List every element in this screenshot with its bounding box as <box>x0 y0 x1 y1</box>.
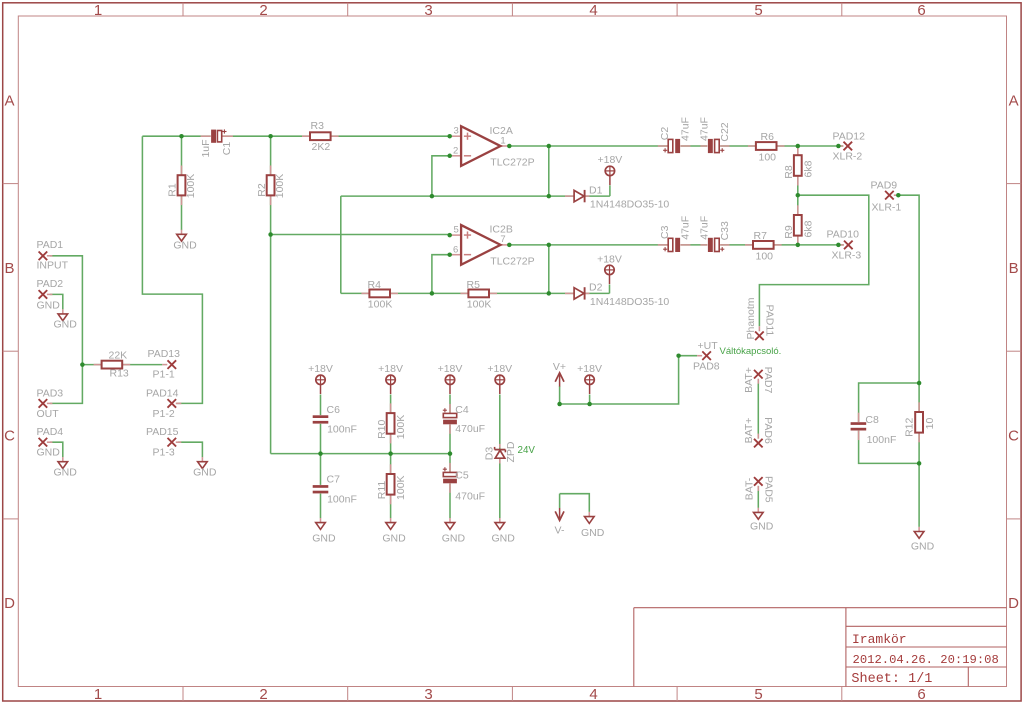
svg-text:4: 4 <box>589 686 597 703</box>
svg-text:C: C <box>4 428 15 445</box>
svg-text:Sheet: 1/1: Sheet: 1/1 <box>851 672 932 687</box>
svg-text:XLR-2: XLR-2 <box>833 150 863 162</box>
svg-text:IC2B: IC2B <box>490 224 513 236</box>
svg-text:GND: GND <box>37 299 61 311</box>
svg-text:1N4148DO35-10: 1N4148DO35-10 <box>590 296 670 308</box>
svg-text:R2: R2 <box>256 183 268 197</box>
svg-text:22K: 22K <box>109 350 128 362</box>
svg-text:7: 7 <box>500 234 505 245</box>
svg-text:P1-3: P1-3 <box>153 447 175 459</box>
svg-text:3: 3 <box>424 2 432 19</box>
svg-text:100K: 100K <box>467 298 492 310</box>
svg-text:4: 4 <box>589 2 597 19</box>
svg-text:470uF: 470uF <box>455 490 485 502</box>
svg-text:D3: D3 <box>483 447 495 461</box>
svg-text:B: B <box>1009 260 1019 277</box>
svg-text:1: 1 <box>94 2 102 19</box>
svg-text:3: 3 <box>424 686 432 703</box>
svg-text:100nF: 100nF <box>327 493 357 505</box>
svg-text:1: 1 <box>94 686 102 703</box>
svg-text:C1: C1 <box>221 142 233 156</box>
svg-text:GND: GND <box>911 541 935 553</box>
svg-text:R5: R5 <box>467 279 481 291</box>
svg-text:GND: GND <box>54 467 78 479</box>
svg-text:+18V: +18V <box>378 363 403 375</box>
svg-text:PAD14: PAD14 <box>146 387 179 399</box>
svg-text:GND: GND <box>37 447 61 459</box>
svg-text:C6: C6 <box>327 404 341 416</box>
svg-text:C: C <box>1008 428 1019 445</box>
svg-text:V+: V+ <box>553 361 566 373</box>
svg-text:47uF: 47uF <box>679 117 691 141</box>
svg-text:C2: C2 <box>659 127 671 141</box>
svg-text:PAD3: PAD3 <box>37 387 64 399</box>
svg-text:A: A <box>4 93 14 110</box>
svg-text:6: 6 <box>917 2 925 19</box>
svg-text:PAD15: PAD15 <box>146 426 179 438</box>
svg-text:PAD12: PAD12 <box>833 131 866 143</box>
svg-text:470uF: 470uF <box>455 423 485 435</box>
svg-text:5: 5 <box>454 225 459 236</box>
svg-text:R12: R12 <box>903 418 915 437</box>
svg-text:GND: GND <box>193 467 217 479</box>
svg-text:100nF: 100nF <box>327 424 357 436</box>
svg-text:100: 100 <box>756 250 774 262</box>
svg-text:2: 2 <box>453 146 458 157</box>
svg-text:10: 10 <box>924 418 936 430</box>
svg-text:D1: D1 <box>589 184 603 196</box>
svg-text:R4: R4 <box>368 279 382 291</box>
svg-text:+18V: +18V <box>438 363 463 375</box>
svg-text:24V: 24V <box>518 445 536 456</box>
svg-text:PAD4: PAD4 <box>37 426 64 438</box>
svg-text:INPUT: INPUT <box>37 260 69 272</box>
svg-text:C8: C8 <box>865 414 879 426</box>
svg-text:PAD1: PAD1 <box>37 239 64 251</box>
svg-text:47uF: 47uF <box>679 216 691 240</box>
svg-text:Iramkör: Iramkör <box>852 632 907 647</box>
svg-text:100K: 100K <box>274 174 286 199</box>
svg-text:A: A <box>1009 93 1019 110</box>
svg-text:V-: V- <box>555 525 565 537</box>
svg-text:D: D <box>4 595 15 612</box>
svg-text:GND: GND <box>492 532 516 544</box>
svg-text:BAT-: BAT- <box>744 477 756 500</box>
svg-text:6k8: 6k8 <box>802 160 814 177</box>
svg-text:2K2: 2K2 <box>312 141 331 153</box>
svg-text:TLC272P: TLC272P <box>490 255 534 267</box>
svg-text:GND: GND <box>382 532 406 544</box>
svg-text:C4: C4 <box>455 404 469 416</box>
svg-text:1uF: 1uF <box>200 139 212 157</box>
svg-text:1N4148DO35-10: 1N4148DO35-10 <box>590 199 670 211</box>
svg-text:5: 5 <box>754 686 762 703</box>
svg-text:47uF: 47uF <box>698 117 710 141</box>
svg-text:5: 5 <box>754 2 762 19</box>
svg-text:1: 1 <box>500 135 505 146</box>
svg-text:2012.04.26. 20:19:08: 2012.04.26. 20:19:08 <box>853 653 999 667</box>
svg-text:+18V: +18V <box>577 363 602 375</box>
svg-text:3: 3 <box>454 126 459 137</box>
svg-text:+18V: +18V <box>308 363 333 375</box>
svg-text:+UT: +UT <box>698 340 719 352</box>
svg-text:47uF: 47uF <box>698 216 710 240</box>
svg-text:ZPD: ZPD <box>505 441 517 462</box>
svg-text:R6: R6 <box>761 131 775 143</box>
svg-text:100nF: 100nF <box>867 434 897 446</box>
svg-text:R10: R10 <box>376 420 388 439</box>
svg-text:R1: R1 <box>167 183 179 197</box>
svg-text:Phanotm: Phanotm <box>745 297 757 339</box>
svg-text:P1-2: P1-2 <box>153 408 175 420</box>
svg-text:100K: 100K <box>395 475 407 500</box>
svg-text:2: 2 <box>259 686 267 703</box>
svg-text:R9: R9 <box>783 225 795 239</box>
svg-text:6: 6 <box>453 245 458 256</box>
svg-text:GND: GND <box>442 532 466 544</box>
svg-text:PAD5: PAD5 <box>763 476 775 503</box>
svg-text:C22: C22 <box>719 122 731 141</box>
svg-text:PAD6: PAD6 <box>762 417 774 444</box>
svg-text:P1-1: P1-1 <box>153 368 175 380</box>
svg-text:B: B <box>4 260 14 277</box>
svg-text:XLR-3: XLR-3 <box>832 249 862 261</box>
svg-text:IC2A: IC2A <box>490 125 513 137</box>
svg-text:100K: 100K <box>395 415 407 440</box>
svg-text:PAD10: PAD10 <box>827 228 860 240</box>
svg-text:D2: D2 <box>589 282 603 294</box>
svg-text:GND: GND <box>750 520 774 532</box>
svg-text:GND: GND <box>54 318 78 330</box>
svg-text:PAD9: PAD9 <box>871 179 898 191</box>
svg-text:OUT: OUT <box>37 408 60 420</box>
svg-text:Váltókapcsoló.: Váltókapcsoló. <box>720 346 782 357</box>
svg-text:PAD7: PAD7 <box>762 367 774 394</box>
svg-text:+18V: +18V <box>597 253 622 265</box>
svg-text:6k8: 6k8 <box>802 220 814 237</box>
svg-text:+18V: +18V <box>487 363 512 375</box>
svg-text:100K: 100K <box>368 298 393 310</box>
svg-text:2: 2 <box>259 2 267 19</box>
svg-text:+18V: +18V <box>597 154 622 166</box>
svg-text:TLC272P: TLC272P <box>490 157 534 169</box>
svg-text:C3: C3 <box>659 225 671 239</box>
svg-text:100K: 100K <box>185 174 197 199</box>
svg-text:GND: GND <box>173 239 197 251</box>
svg-text:R8: R8 <box>783 165 795 179</box>
svg-text:PAD13: PAD13 <box>148 348 181 360</box>
svg-text:C5: C5 <box>455 469 469 481</box>
svg-text:XLR-1: XLR-1 <box>872 201 902 213</box>
svg-text:PAD8: PAD8 <box>693 360 720 372</box>
svg-text:R11: R11 <box>376 481 388 500</box>
svg-text:C7: C7 <box>327 474 341 486</box>
svg-text:PAD2: PAD2 <box>37 278 64 290</box>
svg-text:GND: GND <box>581 527 605 539</box>
svg-text:6: 6 <box>917 686 925 703</box>
svg-text:BAT+: BAT+ <box>743 418 755 444</box>
svg-text:GND: GND <box>312 532 336 544</box>
svg-text:100: 100 <box>759 151 777 163</box>
svg-text:BAT+: BAT+ <box>743 367 755 393</box>
svg-text:R7: R7 <box>754 230 768 242</box>
svg-text:R13: R13 <box>110 368 129 380</box>
svg-text:R3: R3 <box>311 120 325 132</box>
svg-text:C33: C33 <box>719 221 731 240</box>
svg-text:PAD11: PAD11 <box>764 305 776 337</box>
svg-text:D: D <box>1008 595 1019 612</box>
